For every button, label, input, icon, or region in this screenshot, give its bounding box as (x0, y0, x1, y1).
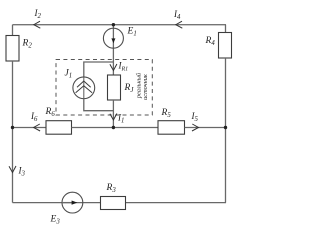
wire left vertical lower (12, 61, 14, 203)
wire right vertical lower (225, 58, 227, 203)
arrow I5 (192, 124, 199, 131)
wire J1 top horizontal (84, 62, 114, 77)
wire J1 bottom horizontal (84, 99, 114, 111)
wire J1 vertical through circle (83, 77, 85, 99)
node middle center (112, 126, 115, 129)
wire RJ bottom to middle node (112, 100, 114, 128)
resistor R6 (46, 121, 72, 135)
node top center (112, 23, 115, 26)
node middle right (224, 126, 227, 129)
dashed box real source (56, 60, 152, 116)
wire through E3 (62, 202, 72, 204)
wire middle horizontal left (13, 127, 47, 129)
svg-text:источник: источник (142, 74, 149, 100)
arrow I2 (34, 21, 41, 28)
wire bottom horizontal right (126, 202, 227, 204)
wire middle right of R5 (185, 127, 226, 129)
wire middle between R6 and R5 (72, 127, 159, 129)
node middle left (11, 126, 14, 129)
arrowhead inside E3 (72, 201, 78, 205)
wire top horizontal (13, 24, 227, 26)
wire left vertical upper (12, 25, 14, 36)
EMF source E3 (62, 192, 83, 213)
wire E1 branch vertical (112, 25, 114, 75)
resistor R5 (158, 121, 185, 135)
arrow I1 (110, 114, 117, 121)
chevron arrow 1 inside J1 (77, 81, 91, 87)
voltage source E1 (103, 28, 123, 48)
arrow IR1 (110, 64, 117, 71)
arrow I4 (176, 21, 183, 28)
arrow I6 (34, 124, 41, 131)
resistor R2 (6, 36, 19, 62)
resistor R3 (101, 197, 126, 210)
wire right vertical upper (225, 25, 227, 33)
wire bottom horizontal left (13, 202, 101, 204)
resistor R4 (219, 33, 232, 59)
resistor RJ (108, 75, 121, 100)
arrowhead inside E1 (111, 38, 115, 43)
current source J1 (73, 77, 95, 99)
arrow I3 (9, 166, 16, 173)
chevron arrow 2 inside J1 (76, 86, 93, 93)
